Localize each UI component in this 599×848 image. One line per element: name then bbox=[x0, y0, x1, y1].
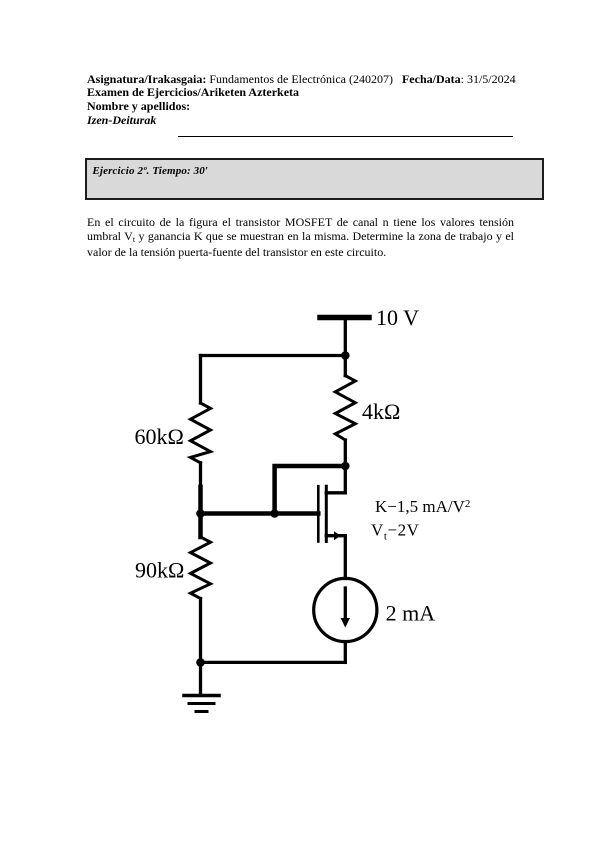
svg-text:Vt−2V: Vt−2V bbox=[371, 521, 420, 543]
svg-text:90kΩ: 90kΩ bbox=[135, 558, 184, 583]
svg-text:2 mA: 2 mA bbox=[386, 601, 436, 626]
svg-text:4kΩ: 4kΩ bbox=[362, 399, 400, 424]
svg-text:60kΩ: 60kΩ bbox=[135, 424, 184, 449]
svg-text:10 V: 10 V bbox=[376, 305, 419, 330]
svg-text:K−1,5 mA/V2: K−1,5 mA/V2 bbox=[375, 497, 470, 516]
